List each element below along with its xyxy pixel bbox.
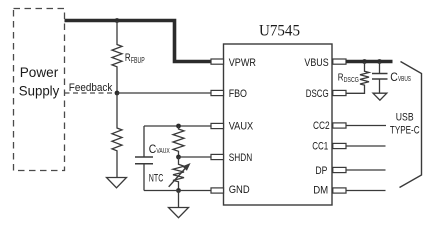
svg-text:R: R: [125, 52, 131, 64]
pin CC2: [313, 120, 346, 132]
pin DP: [315, 165, 346, 177]
wire Feedback dashed segment: [65, 82, 117, 94]
wire DP: [346, 169, 386, 171]
svg-text:GND: GND: [229, 184, 250, 196]
pin CC1: [312, 141, 346, 153]
pin VAUX: [211, 121, 254, 133]
pin GND: [211, 184, 250, 196]
svg-text:VBUS: VBUS: [304, 57, 328, 69]
wire CC2: [346, 125, 386, 127]
thermistor NTC: [149, 157, 191, 191]
svg-text:VPWR: VPWR: [229, 57, 256, 69]
USB Type-C connector: [390, 62, 422, 188]
wire CVAUX bottom to GND net: [144, 190, 179, 192]
svg-text:USB: USB: [396, 112, 414, 124]
pin VBUS: [304, 57, 346, 69]
wire VPWR net (thick): [65, 21, 212, 62]
svg-text:U7545: U7545: [259, 23, 300, 40]
wire VAUX: [144, 125, 212, 127]
wire DM: [346, 190, 386, 192]
resistor RFBUP: [112, 21, 145, 92]
power supply box: [14, 9, 65, 171]
node junction RDSCG: [362, 59, 367, 64]
ground (below CVBUS): [373, 93, 387, 100]
capacitor CVAUX: [135, 126, 170, 191]
wire SHDN: [179, 156, 212, 158]
svg-text:CC1: CC1: [312, 141, 328, 153]
resistor (feedback divider lower): [112, 93, 122, 178]
IC U7545 body: [224, 23, 333, 205]
svg-text:NTC: NTC: [149, 173, 164, 185]
svg-text:Feedback: Feedback: [69, 82, 113, 94]
capacitor CVBUS: [372, 62, 411, 93]
svg-text:DM: DM: [313, 185, 328, 197]
svg-text:SHDN: SHDN: [229, 152, 253, 164]
svg-text:DP: DP: [315, 165, 327, 177]
pin DM: [313, 185, 346, 197]
svg-text:VAUX: VAUX: [156, 146, 169, 155]
pin DSCG: [306, 88, 346, 100]
node junction SHDN: [176, 155, 181, 160]
svg-text:Supply: Supply: [19, 83, 60, 99]
svg-text:Power: Power: [20, 64, 59, 80]
svg-text:FBO: FBO: [229, 88, 248, 100]
svg-text:C: C: [390, 72, 398, 84]
resistor RDSCG: [338, 62, 369, 93]
wire VBUS net (thick): [346, 60, 393, 64]
svg-text:CC2: CC2: [313, 120, 330, 132]
resistor (VAUX-SHDN pullup): [173, 126, 184, 157]
svg-text:TYPE-C: TYPE-C: [390, 125, 420, 137]
node junction CVBUS: [377, 59, 382, 64]
wire CC1: [346, 145, 386, 147]
svg-text:VBUS: VBUS: [398, 74, 411, 83]
node junction on VPWR net: [115, 18, 120, 23]
svg-text:VAUX: VAUX: [229, 121, 254, 133]
node junction GND net: [176, 188, 181, 193]
wire FBO: [117, 92, 212, 94]
pin VPWR: [211, 57, 256, 69]
svg-text:C: C: [149, 144, 157, 156]
wire GND pin: [179, 190, 212, 192]
node junction VAUX: [176, 124, 181, 129]
svg-text:DSCG: DSCG: [344, 77, 359, 84]
ground (below NTC): [169, 191, 189, 218]
node junction Feedback/FBO: [115, 91, 120, 96]
pin FBO: [211, 88, 247, 100]
ground (below divider resistor): [107, 178, 127, 188]
svg-text:FBUP: FBUP: [131, 55, 145, 65]
svg-text:DSCG: DSCG: [306, 88, 329, 100]
pin SHDN: [211, 152, 252, 164]
